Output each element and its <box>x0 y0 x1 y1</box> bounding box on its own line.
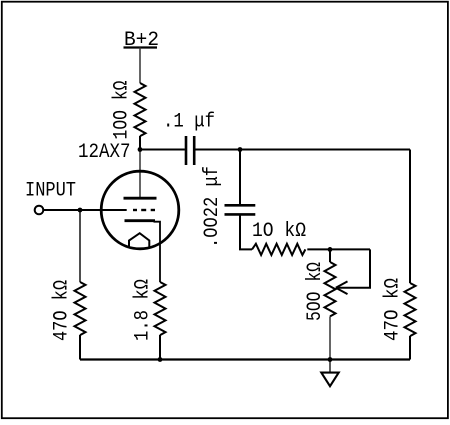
svg-text:1O kΩ: 1O kΩ <box>252 220 306 243</box>
svg-text:1OO kΩ: 1OO kΩ <box>111 81 134 140</box>
svg-text:B+2: B+2 <box>124 29 159 52</box>
svg-text:INPUT: INPUT <box>25 180 76 203</box>
svg-text:12AX7: 12AX7 <box>78 141 131 164</box>
svg-text:.OO22 μf: .OO22 μf <box>201 166 224 248</box>
svg-text:1.8 kΩ: 1.8 kΩ <box>132 279 155 341</box>
svg-text:47O kΩ: 47O kΩ <box>382 278 405 341</box>
svg-text:.1 μf: .1 μf <box>163 111 215 134</box>
svg-text:47O kΩ: 47O kΩ <box>51 280 74 341</box>
svg-text:5OO kΩ: 5OO kΩ <box>304 262 327 321</box>
